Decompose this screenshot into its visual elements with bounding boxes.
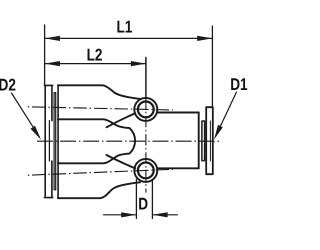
dimension L1 left arrowhead bbox=[45, 36, 60, 41]
dimension D right arrowhead (pointing left) bbox=[153, 212, 168, 217]
body top edge bbox=[58, 85, 140, 99]
right cap inner line bbox=[209, 121, 211, 161]
svg-text:D2: D2 bbox=[0, 75, 16, 94]
left release ring plate A bbox=[44, 85, 52, 197]
svg-text:D: D bbox=[138, 194, 148, 213]
dimension L1 right arrowhead bbox=[197, 36, 212, 41]
extension line left for D bbox=[135, 180, 137, 219]
lower branch circle outer bbox=[134, 159, 157, 182]
svg-text:D1: D1 bbox=[230, 75, 247, 94]
upper branch centerline (slightly tilted) bbox=[28, 107, 173, 110]
dimension L1 line bbox=[45, 37, 212, 39]
wire: left extension line for L1/L2 bbox=[44, 25, 46, 85]
dimension D left arrowhead (pointing right) bbox=[121, 212, 136, 217]
right washer ring bbox=[202, 121, 205, 161]
leader line from D2 to left cap bbox=[12, 93, 40, 137]
dimension D right line bbox=[153, 214, 178, 216]
svg-text:L1: L1 bbox=[117, 17, 133, 36]
dimension L2 left arrowhead bbox=[45, 61, 60, 66]
upper branch circle inner (tube bore) bbox=[138, 102, 154, 118]
leader line from D1 to right cap bbox=[216, 92, 237, 137]
main cylinder bottom edge bbox=[157, 167, 199, 169]
lower branch circle inner (tube bore) bbox=[138, 163, 154, 179]
svg-text:L2: L2 bbox=[87, 45, 103, 64]
wire: extension line for L2 down to top circle bbox=[145, 58, 147, 98]
right release cap plate bbox=[206, 107, 213, 174]
main cylinder top edge bbox=[157, 112, 199, 114]
vertical centerline through branch circles bbox=[145, 98, 147, 193]
lower branch socket line to circle bbox=[107, 155, 136, 168]
wire: right extension line for L1 bbox=[211, 26, 213, 106]
left collet plate B bbox=[54, 93, 56, 190]
main cylinder right end face bbox=[198, 113, 200, 169]
dimension L2 right arrowhead bbox=[131, 61, 146, 66]
leader D1 arrowhead bbox=[214, 125, 223, 140]
main horizontal centerline bbox=[37, 140, 221, 142]
upper branch inner contour to beak nose bbox=[58, 119, 135, 163]
lower branch centerline (slightly tilted) bbox=[28, 169, 173, 175]
extension line right for D bbox=[151, 180, 153, 219]
body bottom edge bbox=[58, 182, 140, 198]
dimension L2 line bbox=[45, 63, 146, 65]
upper branch circle outer bbox=[134, 98, 157, 121]
body left edge bbox=[57, 85, 59, 198]
leader D2 arrowhead bbox=[31, 126, 42, 140]
dimension D left line bbox=[104, 214, 137, 216]
upper branch socket line to circle bbox=[107, 113, 136, 127]
left plate A inner line bbox=[48, 121, 50, 161]
